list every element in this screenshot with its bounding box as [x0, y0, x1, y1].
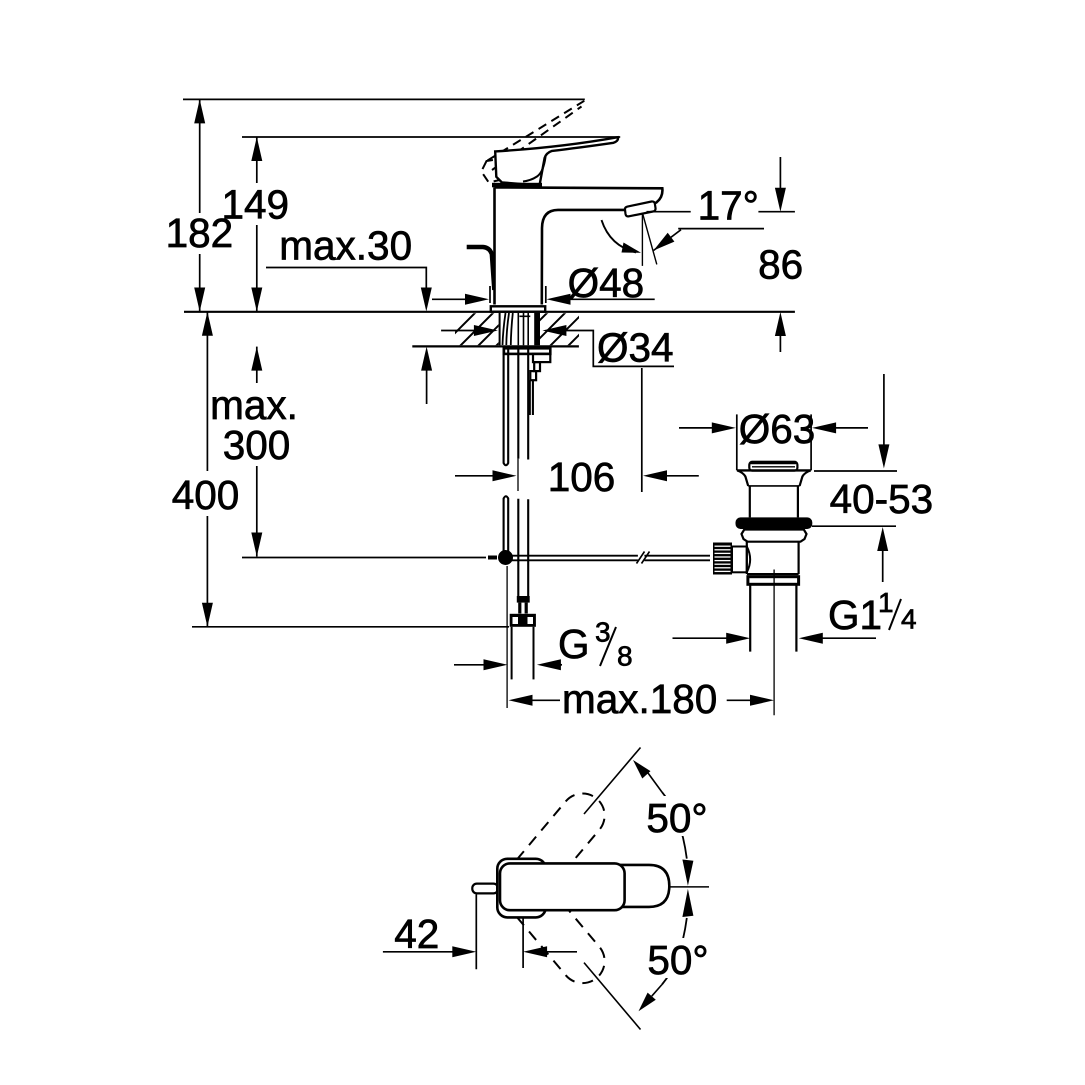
svg-text:86: 86: [758, 242, 803, 288]
svg-text:G1: G1: [828, 592, 882, 638]
svg-text:50°: 50°: [646, 795, 707, 841]
svg-text:17°: 17°: [698, 183, 759, 229]
svg-text:max.30: max.30: [279, 222, 412, 268]
svg-text:40-53: 40-53: [830, 476, 934, 522]
svg-text:149: 149: [222, 182, 290, 228]
svg-text:42: 42: [394, 911, 439, 957]
svg-text:max.180: max.180: [562, 676, 717, 722]
svg-text:1: 1: [878, 587, 894, 618]
svg-text:8: 8: [617, 641, 633, 672]
svg-text:3: 3: [595, 617, 611, 648]
svg-text:400: 400: [172, 472, 240, 518]
svg-text:Ø48: Ø48: [568, 260, 645, 306]
svg-text:G: G: [558, 621, 590, 667]
svg-text:Ø34: Ø34: [597, 325, 674, 371]
svg-text:50°: 50°: [647, 937, 708, 983]
svg-text:Ø63: Ø63: [739, 406, 816, 452]
svg-text:300: 300: [223, 422, 291, 468]
svg-text:4: 4: [901, 604, 917, 635]
svg-text:106: 106: [548, 454, 616, 500]
